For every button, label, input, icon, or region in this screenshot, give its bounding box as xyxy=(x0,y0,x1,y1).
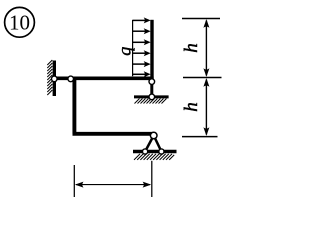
pin hinge at wall xyxy=(52,76,58,82)
member: left vertical leg xyxy=(72,77,76,134)
bottom dimension line xyxy=(75,182,151,188)
dimension line h bottom xyxy=(203,78,209,136)
middle support link xyxy=(150,82,153,98)
bottom support right pin xyxy=(159,149,164,154)
svg-text:h: h xyxy=(181,102,202,112)
left wall support bar xyxy=(53,61,56,97)
middle support lower pin xyxy=(149,94,155,100)
middle support upper pin xyxy=(149,79,155,85)
bottom support top pin xyxy=(150,132,157,139)
bottom support ground hatching xyxy=(134,154,174,160)
distributed load q: load line xyxy=(132,20,134,76)
load arrow 1 xyxy=(133,17,151,23)
load arrow 3 xyxy=(133,39,151,45)
load arrow 4 xyxy=(133,50,151,56)
dimension tick bottom xyxy=(182,136,218,138)
bottom dimension left extension xyxy=(73,165,75,197)
bottom support ground line xyxy=(133,150,177,153)
middle support ground hatching xyxy=(135,99,167,104)
member: top horizontal beam xyxy=(54,76,153,80)
member: right vertical column (loaded) xyxy=(150,20,153,82)
bottom support left pin xyxy=(143,149,148,154)
middle support ground line xyxy=(134,95,169,98)
dimension line h top xyxy=(203,19,209,77)
load arrow 5 xyxy=(133,61,151,67)
dimension tick middle xyxy=(183,77,222,79)
svg-text:10: 10 xyxy=(9,11,30,35)
load arrow 2 xyxy=(133,28,151,34)
left wall support hatching xyxy=(47,60,52,95)
dimension tick top xyxy=(182,18,220,20)
bottom dimension right extension xyxy=(151,161,153,197)
svg-text:h: h xyxy=(181,43,202,53)
problem number circle 10 xyxy=(5,7,35,37)
member: bottom horizontal beam xyxy=(73,132,153,136)
bottom support triangle xyxy=(145,136,161,152)
pin hinge on beam xyxy=(68,76,74,82)
svg-text:q: q xyxy=(114,47,134,56)
load arrow 6 xyxy=(133,71,151,77)
